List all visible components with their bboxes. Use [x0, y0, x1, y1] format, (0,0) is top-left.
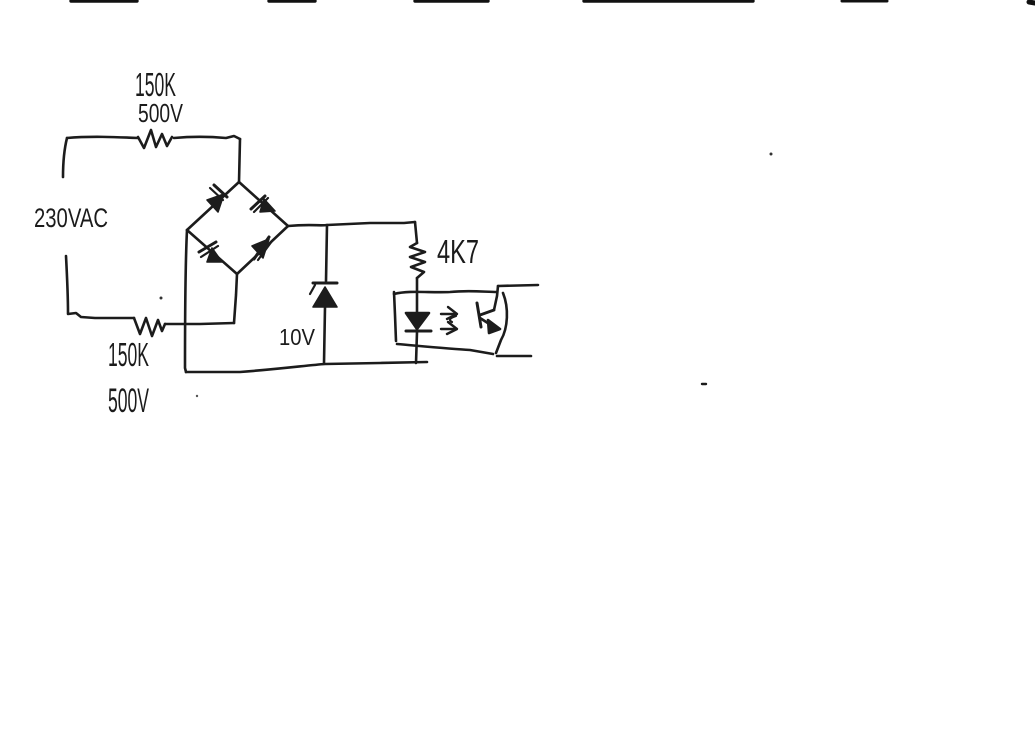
- collector drop from pin: [494, 286, 498, 310]
- svg-text:4K7: 4K7: [437, 233, 479, 270]
- diode D1 triangle: [207, 194, 224, 212]
- svg-text:10V: 10V: [279, 324, 316, 350]
- LED D5 triangle: [406, 313, 429, 329]
- light arrow 2 head: [447, 322, 457, 334]
- diode D2 extra stroke: [254, 198, 268, 212]
- scan mark top-right corner: [1029, 2, 1035, 3]
- scan bar top 5: [842, 0, 887, 3]
- opto box right edge curve: [496, 293, 507, 353]
- opto box bottom edge: [397, 344, 493, 354]
- zener Z1 triangle: [313, 287, 337, 307]
- svg-text:150K: 150K: [108, 336, 149, 373]
- zener cathode bar: [313, 282, 337, 285]
- wire down to bridge top vertex: [239, 139, 240, 182]
- scan bar top 4: [584, 0, 753, 3]
- wire R2 to bridge bottom branch: [165, 323, 234, 324]
- light arrow 2 shaft: [441, 328, 455, 330]
- scan bar top 2: [269, 0, 315, 3]
- diode D1 bar: [214, 185, 227, 197]
- resistor R1 150K zigzag: [138, 130, 172, 148]
- top-right pin wire: [498, 285, 538, 286]
- speck dash 2: [702, 383, 706, 385]
- wire top horizontal left segment: [67, 137, 138, 138]
- light arrow 1 shaft: [441, 313, 455, 315]
- diode D4 bar: [254, 237, 269, 259]
- bridge edge top-right: [239, 182, 288, 226]
- wire R3 to LED: [416, 278, 419, 313]
- svg-text:500V: 500V: [138, 98, 183, 128]
- resistor R2 150K zigzag: [134, 318, 165, 336]
- phototransistor collector diagonal: [480, 310, 494, 315]
- diode D3 extra stroke: [201, 246, 218, 257]
- light arrow connector: [450, 316, 456, 322]
- phototransistor base bar: [477, 303, 481, 327]
- resistor R3 4K7 zigzag: [410, 243, 425, 278]
- bridge edge bottom-left: [187, 230, 237, 274]
- diode D4 extra stroke: [258, 241, 272, 260]
- speck dot 3: [196, 395, 198, 397]
- opto box top edge: [394, 291, 497, 294]
- LED lower lead: [416, 332, 417, 363]
- opto box left edge: [394, 292, 396, 341]
- svg-text:230VAC: 230VAC: [34, 203, 108, 233]
- wire up to bridge bottom vertex: [234, 274, 237, 323]
- speck dot 1: [770, 153, 773, 156]
- bridge edge top-left: [187, 182, 239, 230]
- diode D3 bar: [199, 242, 216, 252]
- bottom-right pin wire: [497, 355, 531, 358]
- wire bottom horizontal to R2: [68, 313, 134, 318]
- svg-text:500V: 500V: [108, 382, 149, 420]
- LED cathode bar: [406, 330, 431, 333]
- scan bar top 1: [71, 0, 137, 3]
- bottom rail: [186, 362, 427, 372]
- bridge edge bottom-right: [237, 226, 288, 274]
- bridge left vertical down: [185, 230, 187, 372]
- wire left upper vertical (230VAC top lead): [63, 138, 67, 177]
- zener bar tail: [310, 285, 315, 294]
- zener lead bottom: [324, 307, 325, 363]
- emitter arrowhead: [488, 320, 500, 333]
- diode D4 triangle: [252, 239, 269, 258]
- light arrow 1 head: [447, 307, 457, 319]
- wire top horizontal right segment: [174, 136, 240, 139]
- zener lead top: [326, 225, 327, 281]
- wire left lower vertical (230VAC bottom lead): [66, 256, 68, 313]
- 4K7 lead top: [415, 222, 417, 243]
- diode D3 triangle: [207, 248, 222, 262]
- speck dot 4: [160, 297, 163, 300]
- diode D2 triangle: [260, 199, 275, 212]
- wire bridge right vertex to 4K7: [288, 222, 415, 226]
- scan bar top 3: [415, 0, 488, 3]
- diode D1 extra stroke: [210, 188, 223, 200]
- phototransistor emitter: [480, 318, 494, 327]
- diode D2 bar: [251, 196, 265, 209]
